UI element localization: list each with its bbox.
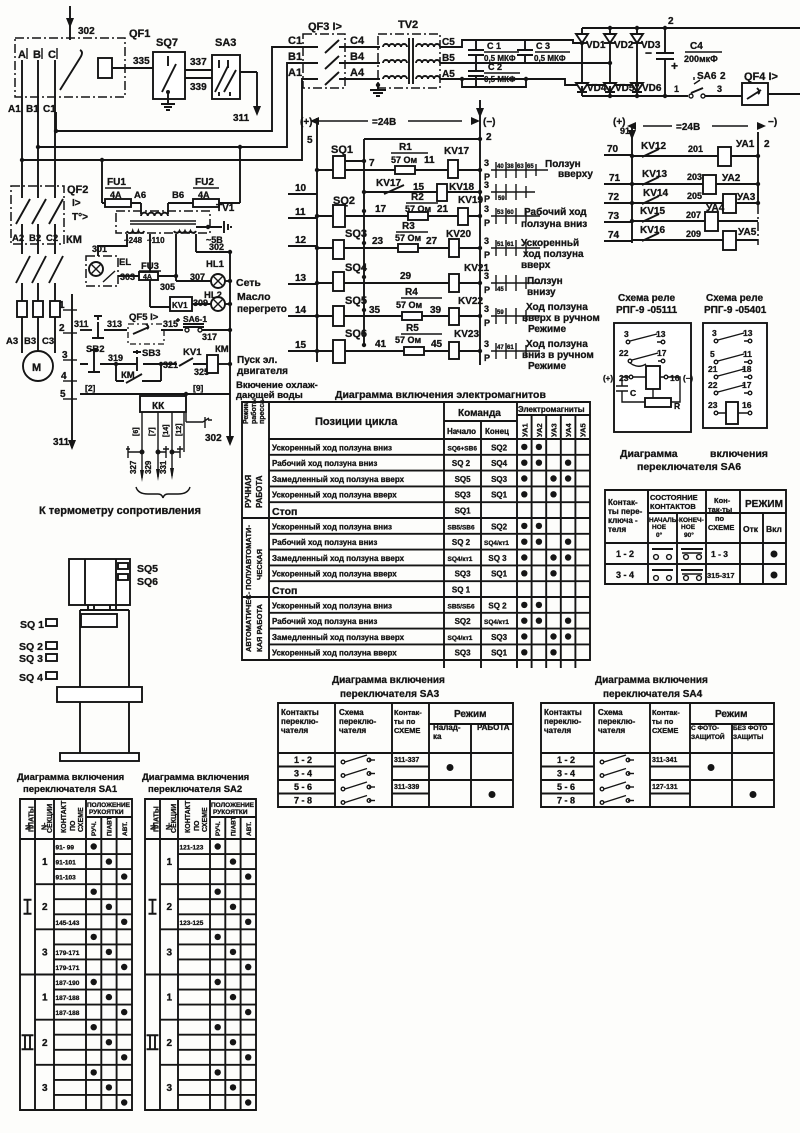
svg-text:P: P [484,194,490,204]
wire stub 14 [288,305,317,316]
svg-text:VD1: VD1 [586,40,606,51]
svg-text:=24В: =24В [372,117,396,128]
svg-text:Позиции цикла: Позиции цикла [315,416,398,428]
svg-text:QF3 I>: QF3 I> [308,21,342,33]
svg-text:59: 59 [498,196,505,202]
coil KV21 [449,263,489,292]
svg-text:вверх в ручном: вверх в ручном [522,313,600,324]
wire A5 [440,79,637,85]
svg-text:СОСТОЯНИЕ: СОСТОЯНИЕ [650,493,698,502]
svg-text:переключателя SA1: переключателя SA1 [23,784,118,795]
svg-text:R1: R1 [399,142,412,153]
wire A1 to QF3 [22,79,309,160]
svg-text:−: − [645,46,652,60]
resistor R3 [395,221,438,252]
svg-text:SQ 2: SQ 2 [19,641,43,653]
svg-text:ты пере-: ты пере- [608,507,643,516]
svg-text:SQ3: SQ3 [345,228,367,240]
svg-text:A2: A2 [12,233,24,244]
top rail to minus [364,138,480,140]
svg-text:P: P [484,285,490,295]
svg-text:VD6: VD6 [642,83,662,94]
SA3 table grid [278,703,513,807]
svg-text:A3: A3 [6,336,18,347]
contactor KM main contacts [16,234,82,301]
svg-text:Замедленный ход ползуна вве: Замедленный ход ползуна вверх [272,554,405,563]
svg-text:ПОЛОЖЕНИЕ: ПОЛОЖЕНИЕ [87,802,131,809]
phase labels A3 B3 C3 [6,336,54,347]
net label: Ход ползуна вниз в ручном режиме [522,339,594,372]
svg-text:УА3: УА3 [737,192,756,203]
svg-text:65: 65 [527,164,534,170]
breaker QF5 [128,312,183,344]
svg-text:61: 61 [507,242,514,248]
capacitor C3 [517,40,570,63]
svg-text:РАБОТА: РАБОТА [477,723,510,732]
press flange [57,687,142,702]
svg-text:35: 35 [369,305,381,316]
svg-text:[2]: [2] [85,383,96,393]
svg-text:3: 3 [484,271,489,281]
svg-text:Режим: Режим [243,401,250,424]
net label: Рабочий ход ползуна вниз [521,206,587,230]
svg-text:17: 17 [375,204,387,215]
svg-text:57 Ом: 57 Ом [395,233,422,243]
svg-text:ПЛАТЫ: ПЛАТЫ [154,806,161,832]
svg-text:VD4: VD4 [587,83,607,94]
svg-text:A1: A1 [288,67,302,79]
svg-text:KV15: KV15 [640,206,665,217]
svg-text:11: 11 [424,155,435,166]
capacitor C4 electrolytic [645,28,722,96]
svg-text:1: 1 [674,84,679,94]
press column [80,702,129,753]
tap wires down [92,234,232,307]
svg-text:SQ3: SQ3 [491,475,508,484]
table row 4 [272,491,557,500]
svg-text:317: 317 [202,332,217,342]
switch SQ1 [331,144,364,178]
svg-text:200мкФ: 200мкФ [684,54,718,64]
svg-text:работы: работы [250,398,258,424]
svg-text:УА1: УА1 [736,139,755,150]
net label: Масло перегрето [237,291,287,315]
svg-text:T°>: T°> [72,212,88,223]
TV2 secondary labels [442,37,455,80]
svg-text:Схема реле: Схема реле [706,293,763,304]
capacitor C1 [468,40,519,63]
svg-text:КОНЕЧ-: КОНЕЧ- [679,517,704,524]
phase wires down to QF2 [22,97,56,188]
svg-text:302: 302 [209,242,224,252]
svg-text:чателя: чателя [544,726,572,735]
phase labels A2 B2 C2 [12,233,58,244]
svg-text:АВТ.: АВТ. [246,822,253,836]
svg-text:A: A [18,49,26,61]
svg-text:вниз в ручном: вниз в ручном [522,350,594,361]
svg-text:СХЕМЕ: СХЕМЕ [394,726,420,735]
svg-text:Кон-: Кон- [714,496,731,505]
bottom DC bus node 1 [582,95,688,97]
svg-text:−): −) [768,117,777,128]
net label: Ползун вверху [545,159,593,180]
svg-text:57 Ом: 57 Ом [396,300,423,310]
fuse FU3 [118,261,178,292]
svg-text:337: 337 [190,57,207,68]
relay contact KV15 row [632,206,705,222]
svg-text:2: 2 [42,902,48,913]
svg-text:C 2: C 2 [488,62,502,72]
svg-text:2: 2 [167,1038,173,1049]
svg-text:187-188: 187-188 [56,1010,80,1017]
svg-text:B6: B6 [172,190,184,201]
svg-text:2: 2 [42,1038,48,1049]
svg-text:теля: теля [608,525,626,534]
svg-text:2: 2 [720,71,726,82]
svg-text:M: M [32,362,41,374]
svg-text:SQ3: SQ3 [455,649,472,658]
svg-text:[6]: [6] [133,427,140,436]
svg-text:53: 53 [497,210,504,216]
svg-text:Налад-: Налад- [433,723,461,732]
svg-text:209: 209 [686,229,701,239]
circuit breaker QF3 [303,21,345,88]
relay schema RPG-9-05111 title [616,293,678,316]
svg-text:11: 11 [743,349,752,359]
net label: Ускоренный ход ползуна вверх [521,238,584,271]
svg-text:P: P [484,318,490,328]
svg-text:Контак-: Контак- [608,498,638,507]
svg-text:Замедленный ход ползуна вве: Замедленный ход ползуна вверх [272,633,405,642]
svg-text:КОНТАКТ: КОНТАКТ [61,800,68,833]
svg-text:SQ5: SQ5 [455,475,472,484]
svg-text:3: 3 [624,329,629,339]
table row 7 [272,538,571,547]
svg-text:311-339: 311-339 [394,784,419,791]
SQ6 row wire [317,350,480,352]
svg-text:15: 15 [295,340,307,351]
svg-text:SQ7: SQ7 [156,37,178,49]
KK sensor wires to thermometer [126,412,212,482]
node (+) 5 [300,117,313,146]
svg-text:[12]: [12] [176,424,183,436]
svg-text:7 - 8: 7 - 8 [294,796,312,806]
svg-text:П/АВТ: П/АВТ [231,816,238,836]
coil KV20 [446,229,471,257]
table row 9 [272,570,557,579]
svg-text:SQ5: SQ5 [137,563,158,575]
transformer TV2 [378,19,440,88]
relay schema RPG-9-05401 box [703,323,767,428]
svg-text:Контакты: Контакты [281,708,319,717]
coil KV19 [458,195,483,225]
svg-text:переключателя SA6: переключателя SA6 [637,461,741,473]
svg-text:Ускоренньй: Ускоренньй [521,238,579,249]
contact group row7 pins 47 61 [484,339,540,363]
svg-text:SQ 2: SQ 2 [452,459,471,468]
table row 13 [272,633,571,642]
svg-text:5: 5 [307,135,313,146]
svg-text:R2: R2 [411,192,424,203]
svg-text:чателя: чателя [281,726,309,735]
svg-text:3: 3 [484,204,489,214]
svg-text:РПГ-9 -05401: РПГ-9 -05401 [704,305,767,316]
svg-text:3: 3 [717,84,722,94]
coil YA2 [630,173,760,194]
svg-text:311: 311 [53,437,70,448]
ground TV1 secondary [196,221,231,233]
svg-text:51: 51 [497,242,504,248]
svg-text:Диаграмма включения: Диаграмма включения [595,675,708,686]
svg-text:R5: R5 [406,323,419,334]
svg-text:13: 13 [656,329,666,339]
SA6 table row 3-4 [616,570,778,580]
svg-text:3: 3 [712,328,717,338]
svg-text:переключателя SA3: переключателя SA3 [340,689,440,700]
sensor SQ4 [19,672,57,684]
svg-text:Диаграмма включения: Диаграмма включения [17,772,124,783]
svg-text:B: B [33,49,41,61]
svg-text:45: 45 [431,339,443,350]
svg-text:1: 1 [167,857,173,868]
svg-text:ПОЛУАВТОМАТИ-: ПОЛУАВТОМАТИ- [244,525,253,590]
cap bottom bus [462,79,526,87]
svg-text:60: 60 [507,210,514,216]
svg-text:Отк: Отк [743,524,759,534]
switch SQ3 [333,228,367,259]
svg-text:SB5/SБ6: SB5/SБ6 [448,603,475,610]
svg-text:127-131: 127-131 [652,784,678,791]
resistor R2 [405,192,449,220]
svg-text:C2: C2 [46,233,58,244]
svg-text:C4: C4 [350,35,365,47]
svg-text:38: 38 [507,164,514,170]
svg-text:ПЛАТЫ: ПЛАТЫ [29,806,36,832]
svg-text:СЕКЦИИ: СЕКЦИИ [47,804,54,833]
coil KV18 [437,182,482,201]
svg-text:SQ6: SQ6 [137,576,158,588]
svg-text:QF1: QF1 [129,28,150,40]
svg-text:3 - 4: 3 - 4 [294,769,312,779]
contact group row4 pins 51 61 [484,236,540,260]
svg-text:УА2: УА2 [722,173,741,184]
svg-text:57 Ом: 57 Ом [395,335,422,345]
svg-text:УА4: УА4 [706,203,725,214]
svg-text:РУЧ.: РУЧ. [91,821,98,836]
relay contact KV13 row [632,169,703,185]
table row 5 [272,506,471,518]
svg-text:Начало: Начало [447,427,476,436]
svg-text:13: 13 [295,273,307,284]
svg-text:KV19: KV19 [458,195,483,206]
svg-text:3: 3 [42,1083,48,1094]
svg-text:17: 17 [657,348,667,358]
svg-text:P: P [484,218,490,228]
svg-text:SQ 3: SQ 3 [19,653,43,665]
net label: Ползун внизу [527,276,563,298]
SA1 table grid [20,799,132,1110]
svg-text:91- 99: 91- 99 [56,845,75,852]
SA6 table headers [608,493,783,539]
wire stub 15 [288,340,317,351]
svg-text:СХЕМЕ: СХЕМЕ [78,807,85,832]
table row 1 [272,443,542,452]
svg-text:РАБОТА: РАБОТА [255,475,264,508]
svg-text:(−): (−) [683,374,693,383]
switch SA3 [212,37,261,116]
svg-text:SQ2: SQ2 [491,522,508,531]
svg-text:Сеть: Сеть [236,277,261,289]
svg-text:КОНТАКТ: КОНТАКТ [185,800,192,833]
svg-text:40: 40 [497,164,504,170]
svg-text:Схема: Схема [339,708,364,717]
svg-text:3 - 4: 3 - 4 [557,769,575,779]
svg-text:Рабочий ход: Рабочий ход [524,206,587,218]
press body [80,605,129,687]
svg-text:311: 311 [74,319,89,329]
svg-text:[7]: [7] [149,427,156,436]
svg-text:P: P [484,353,490,363]
svg-text:SQ1: SQ1 [331,144,353,156]
svg-text:СХЕМЕ: СХЕМЕ [708,523,734,532]
brace to thermometer [136,487,190,498]
coil YA3 [630,192,760,213]
svg-text:переклю-: переклю- [339,717,377,726]
svg-text:(−): (−) [483,117,496,128]
diode VD4 [576,83,607,96]
SA4 mode dots [708,764,715,771]
fuse FU1 [102,160,146,214]
svg-text:Режиме: Режиме [528,361,566,372]
svg-text:ЗАЩИТЫ: ЗАЩИТЫ [733,734,763,741]
svg-text:переклю-: переклю- [544,717,582,726]
svg-text:SQ4: SQ4 [491,459,508,468]
svg-text:311: 311 [233,113,250,124]
relay contact KV16 row [632,225,723,241]
wire stub 11 [288,207,317,218]
contact group row1 pins 3/P 40 38 63 65 [484,158,548,182]
relay schema RPG-9-05111 box [603,323,693,432]
row SB2 SB3 KV1 KM coil [80,344,232,377]
svg-text:SQ 1: SQ 1 [20,619,44,631]
switch SQ5 [333,295,367,326]
svg-text:Стоп: Стоп [272,585,297,597]
svg-text:2: 2 [668,16,674,27]
svg-text:К термометру сопротивления: К термометру сопротивления [39,505,201,517]
svg-text:SQ 1: SQ 1 [452,586,471,595]
svg-text:Стоп: Стоп [272,506,297,518]
svg-text:145-143: 145-143 [56,920,80,927]
QF3 output labels [350,35,365,79]
svg-text:331: 331 [159,460,168,474]
svg-text:61: 61 [507,345,514,351]
(+) bus 5 [316,118,318,362]
wires QF3 to TV2 [345,47,380,79]
SA2 dots [215,843,221,849]
svg-text:(+): (+) [603,374,613,383]
svg-text:НОЕ: НОЕ [681,524,696,531]
svg-text:Диаграмма: Диаграмма [620,448,678,460]
svg-text:16: 16 [670,373,680,383]
(+) bus 91 [631,126,633,243]
svg-text:С ФОТО-: С ФОТО- [691,725,719,732]
svg-text:21: 21 [708,364,718,374]
svg-text:Диаграмма включения электром: Диаграмма включения электромагнитов [335,389,546,401]
sensor SQ5 [118,563,158,575]
SA6 table row 1-2 [616,549,778,559]
svg-text:П/АВТ: П/АВТ [106,816,113,836]
svg-text:309: 309 [193,298,208,308]
svg-text:B2: B2 [29,233,41,244]
svg-text:SB3: SB3 [142,348,160,359]
svg-text:Конец: Конец [485,427,509,436]
svg-text:187-188: 187-188 [56,995,80,1002]
sensor SQ1 [20,619,57,631]
svg-text:=24В: =24В [676,122,700,133]
wire stub 74 [604,230,632,241]
svg-text:12: 12 [295,235,307,246]
svg-text:[14]: [14] [163,425,170,437]
svg-text:ПОЛОЖЕНИЕ: ПОЛОЖЕНИЕ [211,802,255,809]
svg-text:Режиме: Режиме [528,324,566,335]
contact group row3 pins 53 60 [484,204,540,228]
svg-text:29: 29 [400,271,412,282]
svg-text:1: 1 [42,993,48,1004]
svg-text:305: 305 [160,282,175,292]
svg-text:3: 3 [484,158,489,168]
svg-text:70: 70 [607,144,619,155]
svg-text:KV12: KV12 [641,141,666,152]
svg-text:ПО: ПО [70,820,77,831]
svg-text:Команда: Команда [458,408,501,419]
svg-text:УА2: УА2 [535,423,544,437]
svg-text:3: 3 [484,236,489,246]
SQ1 row wire [317,169,480,171]
wire rail 311 with taps 1-5 [53,294,77,450]
svg-text:KV1: KV1 [183,347,202,358]
svg-text:SQ 4: SQ 4 [19,672,43,684]
svg-text:Ускоренный ход ползуна вниз: Ускоренный ход ползуна вниз [272,601,392,610]
svg-text:РУЧНАЯ: РУЧНАЯ [244,475,253,508]
svg-text:R4: R4 [405,287,418,298]
svg-text:10: 10 [295,183,307,194]
svg-text:Электромагниты: Электромагниты [518,405,585,414]
SA6 table title [620,448,768,473]
svg-text:SQ4/кт1: SQ4/кт1 [484,619,509,626]
wire stub 72 [604,192,632,203]
resistor R5 [395,323,443,355]
switch SQ6 [333,328,367,363]
node (-) 2 [483,117,496,143]
svg-text:HL1: HL1 [206,259,225,270]
svg-text:SQ6: SQ6 [345,328,367,340]
svg-text:АВТОМАТИЧЕС-: АВТОМАТИЧЕС- [244,591,253,652]
svg-text:SQ2: SQ2 [455,617,472,626]
SA6 table grid [605,490,786,584]
svg-text:74: 74 [608,230,620,241]
wire B1 to QF3 [38,63,309,147]
circuit breaker QF1 [15,28,153,97]
svg-text:Масло: Масло [237,291,271,303]
wire 302 input [66,6,95,40]
svg-text:22: 22 [708,380,718,390]
table row 11 [272,601,542,610]
svg-text:3: 3 [484,339,489,349]
svg-text:71: 71 [609,173,621,184]
svg-text:SQ3: SQ3 [455,491,472,500]
svg-text:KV22: KV22 [458,296,483,307]
svg-text:A4: A4 [350,67,365,79]
